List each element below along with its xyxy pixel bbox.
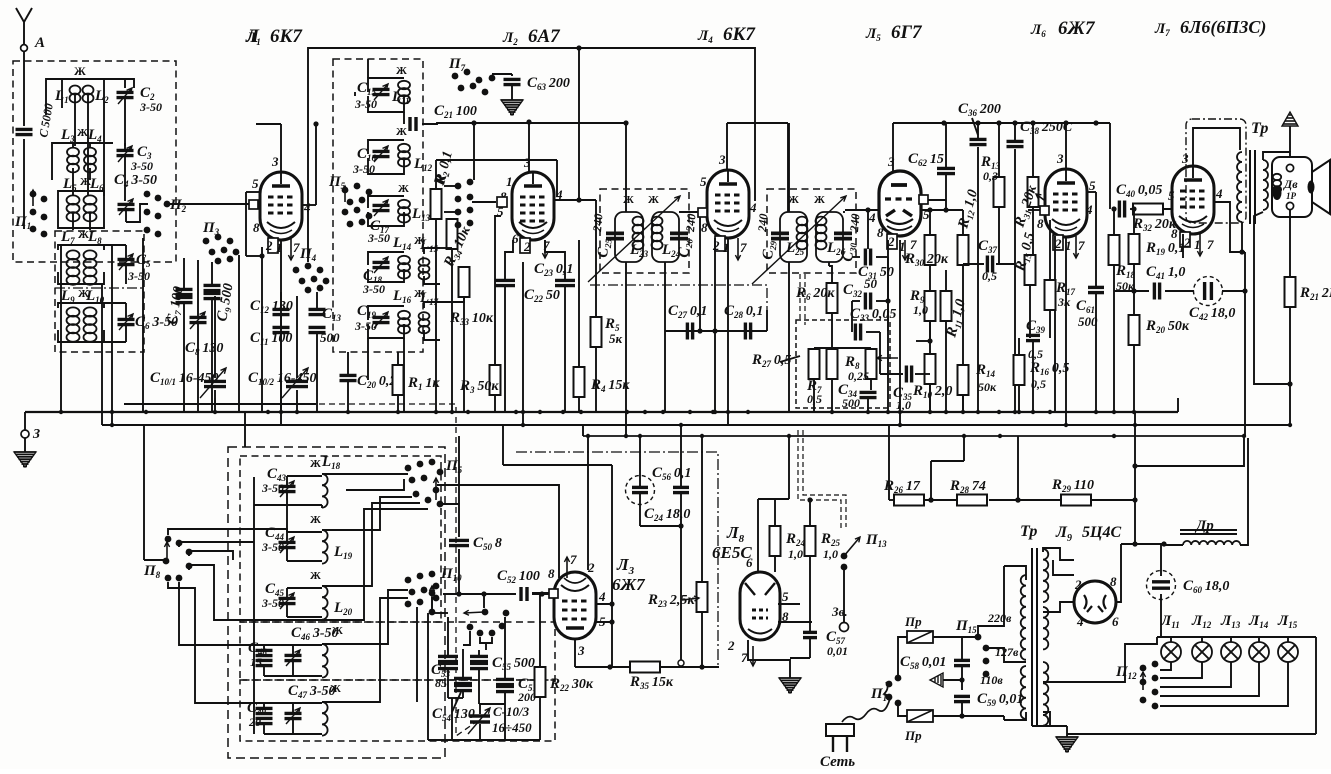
wire C20	[347, 352, 349, 374]
resistor R6	[827, 283, 838, 313]
wire L11 tap	[403, 112, 405, 124]
wire R5	[595, 200, 597, 317]
capacitor C42 18,0 dashed circle	[1194, 277, 1223, 306]
ground transformer	[1066, 726, 1068, 737]
svg-text:3-50: 3-50	[261, 540, 284, 554]
wire R20	[1133, 291, 1135, 315]
trimmer C44	[279, 542, 296, 547]
wire C21 line	[124, 403, 316, 405]
resistor R29 110	[1061, 495, 1091, 506]
wire L18 row	[254, 504, 287, 506]
pointer C54	[452, 692, 461, 712]
capacitor C26 240	[670, 233, 688, 238]
wire sec loop	[1254, 212, 1290, 384]
svg-text:Зв.: Зв.	[831, 604, 848, 619]
capacitor C9a	[204, 285, 221, 290]
svg-text:Пр: Пр	[904, 614, 922, 629]
grid box Л4	[698, 208, 707, 217]
resistor R30	[925, 235, 936, 265]
svg-text:3-50: 3-50	[354, 97, 377, 111]
svg-text:2: 2	[523, 239, 531, 254]
arrow П8	[166, 542, 168, 558]
svg-text:4: 4	[1085, 202, 1093, 217]
node bus1 x963	[961, 410, 965, 414]
wire IF1 pri bottom	[625, 262, 627, 436]
coil L1	[70, 86, 81, 103]
switch П3	[203, 234, 240, 265]
svg-text:8: 8	[701, 220, 708, 235]
wire L12 frame	[368, 140, 404, 154]
svg-text:R16 0,5: R16 0,5	[1029, 360, 1069, 377]
transformer primary windings	[1021, 575, 1026, 660]
wire padder to C52	[483, 594, 485, 608]
capacitor C58 0,01	[954, 660, 970, 665]
wire x1110	[1109, 123, 1111, 209]
svg-text:Ж: Ж	[332, 625, 343, 637]
node bus1 x268	[266, 410, 270, 414]
node bus1 x563	[561, 410, 565, 414]
wire C36 down	[977, 123, 979, 138]
svg-text:16÷450: 16÷450	[492, 720, 532, 735]
wire primary bottom	[1004, 712, 1026, 720]
dashed box IF transformer 1	[600, 189, 689, 273]
wire R25	[809, 500, 811, 526]
capacitor C37 0,5	[987, 256, 992, 273]
node bus1 x1033	[1031, 410, 1035, 414]
node bus x1244	[1242, 434, 1246, 438]
wire IF1 pri top	[625, 123, 627, 212]
capacitor C33 0,05	[855, 324, 860, 341]
resistor R32	[1133, 204, 1163, 215]
node bus1 x728	[726, 410, 730, 414]
wire band3 bottoms	[58, 222, 104, 228]
tube Л9 5Ц4С	[1074, 581, 1116, 623]
svg-text:С63 200: С63 200	[527, 75, 570, 92]
svg-text:240: 240	[847, 213, 863, 233]
svg-text:С8 130: С8 130	[185, 340, 223, 357]
wire Л8 bottom	[748, 640, 790, 678]
wire L14 frame	[368, 252, 404, 265]
capacitor C59 0,01	[954, 696, 970, 701]
wire plate bus Л5-Л6	[893, 122, 1110, 124]
bus ground y412	[25, 411, 1178, 413]
tube Л6 6Ж7	[1045, 169, 1087, 237]
resistor R16	[1014, 355, 1025, 385]
capacitor C35 1,0	[906, 366, 911, 383]
node bus1 x398	[396, 410, 400, 414]
svg-text:С11 100: С11 100	[250, 330, 292, 347]
capacitor C57 0,01	[803, 632, 817, 637]
svg-text:2: 2	[712, 238, 720, 253]
svg-text:240: 240	[683, 213, 699, 233]
wire C24 drop	[680, 526, 682, 660]
wire Л5 top cap	[892, 123, 894, 172]
wires padder columns	[447, 617, 449, 655]
wire chassis	[943, 679, 962, 681]
wire IF2 sec top	[843, 211, 845, 213]
wire Л4 top cap	[726, 123, 728, 170]
trimmer C46	[285, 655, 302, 660]
svg-text:8: 8	[1037, 216, 1044, 231]
wire П14 low	[898, 703, 907, 716]
wire Л3 pins right	[595, 603, 612, 605]
svg-text:С60 18,0: С60 18,0	[1183, 578, 1229, 595]
wire Л5 pin7 arrow	[904, 240, 906, 260]
node bus1 x690	[688, 410, 692, 414]
coil L10	[84, 307, 97, 341]
resistor R1	[393, 365, 404, 395]
wires П5b fan	[346, 473, 408, 475]
lamp Л12	[1192, 642, 1212, 662]
coil L12	[398, 144, 410, 167]
wire x1245 drop	[1244, 252, 1246, 436]
trimmer C16	[373, 151, 390, 156]
wire L21 row	[264, 644, 322, 646]
wire R16	[1018, 338, 1020, 355]
capacitor C23 0,1	[495, 280, 515, 285]
node bus x640	[638, 434, 642, 438]
wire osc verticals	[367, 59, 369, 78]
resistor R28 74	[957, 495, 987, 506]
wire R14	[962, 364, 964, 366]
tube Л3 6Ж7 (inverted)	[554, 572, 596, 639]
svg-text:50к: 50к	[978, 380, 997, 394]
wire R23	[701, 436, 703, 582]
wire R9	[929, 290, 931, 291]
switch cluster П6	[455, 179, 474, 229]
svg-text:R10 2,0: R10 2,0	[912, 383, 952, 400]
wire band1 bottoms	[74, 95, 76, 146]
ground Л8	[779, 678, 801, 692]
wire IF2 sec bottom	[828, 262, 830, 266]
dashed box L22	[240, 680, 555, 741]
wire R35	[575, 666, 630, 668]
wire band3 frame	[58, 191, 104, 196]
dashed box IF transformer 2	[767, 189, 856, 273]
svg-text:7: 7	[740, 240, 747, 255]
capacitor C42 plates	[1205, 282, 1212, 300]
svg-text:С52 100: С52 100	[497, 568, 540, 585]
arrow П5 top	[344, 186, 346, 202]
svg-text:0,5: 0,5	[1028, 347, 1043, 361]
wire C63 gnd	[511, 86, 513, 100]
svg-text:0,3: 0,3	[983, 169, 998, 183]
arrow R31 tap	[1036, 194, 1044, 200]
wire speaker to R21	[1289, 210, 1291, 278]
switch П14	[886, 675, 902, 707]
resistor R15	[1025, 255, 1036, 285]
chassis symbol	[930, 673, 943, 687]
wire Л4 pin7 arrow	[737, 238, 739, 260]
node bus1 x452	[450, 410, 454, 414]
svg-text:5: 5	[1089, 178, 1096, 193]
resistor R3	[490, 365, 501, 395]
capacitor C52 100	[521, 587, 527, 601]
wire Л1 plate	[302, 204, 316, 206]
coil L9	[67, 307, 80, 341]
tube Л5 6Г7	[879, 171, 921, 236]
svg-text:R4 15к: R4 15к	[590, 377, 630, 394]
svg-text:2: 2	[1074, 577, 1082, 592]
dash-dot shield Л3	[516, 452, 718, 666]
wire R12	[962, 210, 964, 235]
wire R15	[1029, 254, 1031, 256]
svg-text:3-50: 3-50	[261, 481, 284, 495]
svg-text:6Ж7: 6Ж7	[1058, 18, 1096, 39]
pointer R27	[780, 356, 800, 362]
arrow П1	[32, 190, 34, 206]
node bus1 x348	[346, 410, 350, 414]
wire П2 to Л1 grid	[167, 203, 249, 205]
capacitor C54	[454, 685, 472, 690]
wire П10 out	[443, 593, 516, 595]
wire C10 leads	[214, 296, 216, 378]
wire lamp Л15 stem	[1287, 637, 1289, 642]
ground C63	[501, 100, 523, 114]
wires П8 to rows	[168, 529, 287, 535]
node bus1 x581	[579, 410, 583, 414]
capacitor C48	[256, 660, 273, 665]
svg-text:С42 18,0: С42 18,0	[1189, 305, 1235, 322]
coil L8	[84, 250, 97, 284]
wire C4	[125, 211, 127, 222]
node bus1 x627	[625, 410, 629, 414]
wire Л3 pin7 arrow up	[566, 557, 568, 578]
wire C6	[125, 303, 127, 318]
node bus x681	[679, 423, 683, 427]
node bus1 x215	[213, 410, 217, 414]
wire R6	[829, 266, 832, 283]
wire L17 frame	[424, 302, 440, 308]
svg-text:Пр: Пр	[904, 728, 922, 743]
node bus1 x468	[466, 410, 470, 414]
wire lamp bus	[1157, 636, 1316, 638]
svg-text:Ж: Ж	[623, 194, 634, 206]
wire Л6 top cap	[1065, 123, 1067, 170]
svg-text:6К7: 6К7	[270, 26, 303, 47]
svg-text:7: 7	[570, 552, 577, 567]
choke Др core	[1180, 529, 1237, 531]
wire divider ends	[888, 425, 890, 500]
trimmer C47	[285, 713, 302, 718]
svg-text:200: 200	[517, 690, 536, 704]
wire R32 to grid	[1130, 208, 1133, 210]
svg-text:4: 4	[1076, 614, 1084, 629]
wire x1135 up	[1134, 412, 1136, 500]
capacitor C51a	[496, 679, 514, 684]
coil L2	[83, 86, 94, 103]
svg-text:Сеть: Сеть	[820, 754, 855, 769]
capacitor C36 200	[970, 139, 987, 144]
wire band4 frame	[58, 245, 104, 250]
trimmer C5	[118, 259, 135, 264]
resistor R23	[697, 582, 708, 612]
lamp Л15	[1278, 642, 1298, 662]
wire band4 bottoms	[58, 272, 104, 284]
fuse Пр bottom	[907, 710, 933, 722]
wire padder top	[431, 597, 433, 613]
svg-text:240: 240	[590, 213, 606, 233]
wire Л2 pin7 arrow	[544, 240, 546, 258]
svg-text:7: 7	[293, 240, 300, 255]
coil L17	[419, 312, 430, 333]
node bus1 x146	[144, 410, 148, 414]
capacitor C22 50	[555, 280, 575, 285]
wire C50 down	[458, 549, 460, 594]
capacitor C53a	[438, 656, 458, 661]
svg-text:8: 8	[1110, 574, 1117, 589]
svg-text:З: З	[32, 427, 40, 442]
capacitor C20	[340, 375, 357, 380]
svg-text:С38 250С: С38 250С	[1020, 119, 1073, 136]
wire R13	[998, 123, 1000, 177]
svg-text:1: 1	[506, 174, 513, 189]
wire C58	[961, 637, 963, 659]
dashed box oscillator coils	[333, 59, 423, 352]
variable capacitor C-10/3	[470, 716, 490, 722]
resistor R13	[994, 177, 1005, 207]
wire osc grid pin5	[495, 216, 501, 365]
capacitor C11	[273, 327, 290, 332]
capacitor C41 1,0	[1154, 283, 1159, 300]
wire cluster bottom	[428, 739, 540, 741]
wire C32 net	[887, 257, 889, 331]
wire det block	[813, 347, 815, 349]
svg-text:6А7: 6А7	[528, 26, 561, 47]
node bus x588	[586, 434, 590, 438]
svg-text:4: 4	[303, 200, 311, 215]
resistor R8	[866, 349, 877, 379]
wire Л8 right pins	[778, 603, 800, 605]
svg-text:R32 20к: R32 20к	[1132, 216, 1177, 233]
wires lamp returns	[1160, 662, 1171, 670]
transformer Тр output core	[1249, 150, 1251, 224]
wire Тр pri bottom	[1241, 222, 1243, 252]
svg-text:15: 15	[250, 655, 262, 669]
node bus1 x748	[746, 410, 750, 414]
wire IF2 pri top	[788, 123, 790, 212]
switch П8	[163, 536, 193, 582]
capacitor C27 0,1	[687, 323, 692, 340]
node bus x1066	[1064, 423, 1068, 427]
switch П10	[405, 571, 440, 616]
wire fuse top	[898, 637, 907, 643]
capacitor C31 50	[865, 249, 870, 266]
coil L14	[398, 256, 410, 279]
wire cluster drop	[473, 123, 475, 180]
svg-text:3: 3	[1056, 151, 1064, 166]
wire Л7 grid	[1152, 208, 1173, 210]
resistor R18	[1109, 235, 1120, 265]
wires П10 fan	[346, 590, 408, 644]
coil L19	[322, 530, 328, 564]
wire Л4 pins down	[714, 258, 716, 412]
wire R34	[451, 218, 453, 220]
switch П13	[844, 537, 860, 556]
wire C61	[1095, 192, 1097, 286]
resistor R20	[1129, 315, 1140, 345]
tube Л8 6Е5С	[740, 572, 780, 640]
svg-text:2: 2	[727, 638, 735, 653]
svg-text:500: 500	[320, 330, 340, 345]
wire primary top	[1004, 566, 1026, 580]
dashed box input band filter	[13, 61, 176, 262]
choke Др winding	[1183, 541, 1240, 545]
node bus1 x930	[928, 410, 932, 414]
wire antenna lead	[23, 52, 25, 126]
svg-text:С4 3-50: С4 3-50	[114, 172, 157, 189]
tube Л1 6К7	[260, 172, 302, 240]
wire y160	[436, 159, 557, 161]
capacitor C55	[470, 663, 488, 668]
svg-text:Ж: Ж	[310, 570, 321, 582]
wire IF1 sec bottom	[664, 262, 666, 331]
svg-text:1,0: 1,0	[788, 547, 803, 561]
wire C56	[639, 436, 641, 486]
wire grid Л2 left	[497, 197, 507, 207]
wire C31	[852, 256, 860, 258]
svg-text:5к: 5к	[609, 331, 623, 346]
svg-text:R23 2,5к: R23 2,5к	[647, 592, 695, 609]
variable capacitor C10/2	[286, 381, 308, 386]
capacitor C39 0,5	[1026, 335, 1040, 340]
node bus1 x523	[521, 410, 525, 414]
tube Л2 6А7	[512, 172, 554, 240]
wire bus drop to Л2 area	[578, 48, 580, 200]
trimmer C45	[279, 598, 296, 603]
coil L6	[84, 195, 97, 221]
node bus1 x1096	[1094, 410, 1098, 414]
wire C5	[125, 245, 127, 258]
wire R1	[397, 352, 399, 365]
capacitor C40 0,05	[1119, 201, 1124, 218]
wire C23	[505, 240, 513, 279]
svg-text:0,25: 0,25	[848, 369, 869, 383]
wire x1018	[1017, 436, 1019, 500]
node bus x1135	[1133, 423, 1137, 427]
wire П12 arrow	[1142, 672, 1144, 690]
dashed AVC drop	[799, 274, 801, 320]
resistor R19	[1129, 234, 1140, 264]
resistor R17	[1045, 280, 1056, 310]
arrow R23	[682, 598, 699, 600]
wire П7 to C63	[492, 73, 512, 75]
wire Л3 plate down	[574, 639, 576, 667]
trimmer C7	[176, 289, 193, 294]
svg-text:Ж: Ж	[74, 64, 86, 78]
wire padder links	[480, 637, 492, 643]
capacitor C30 240	[834, 233, 852, 238]
wire Л5 cathode	[887, 240, 889, 262]
wire C39	[1032, 342, 1034, 412]
wire bus3 left up	[582, 425, 584, 436]
svg-text:Ж: Ж	[310, 514, 321, 526]
speaker voice coil	[1273, 174, 1281, 193]
trimmer C17	[373, 205, 390, 210]
wire C62	[945, 123, 947, 167]
svg-text:5: 5	[252, 176, 259, 191]
switch П5 top	[342, 183, 373, 228]
coil L25	[780, 212, 807, 262]
wire C37	[996, 263, 1015, 265]
trimmer C43	[279, 486, 296, 491]
node bus1 x1050	[1048, 410, 1052, 414]
wire Л7 top cap	[1193, 128, 1240, 166]
wire fil to tube	[1043, 602, 1074, 612]
coil L16	[398, 311, 410, 334]
svg-text:6Г7: 6Г7	[891, 22, 923, 43]
node bus1 x715	[713, 410, 717, 414]
